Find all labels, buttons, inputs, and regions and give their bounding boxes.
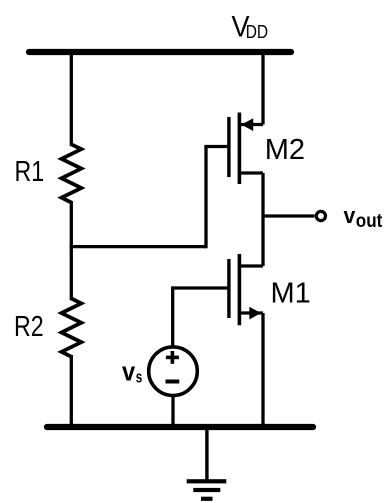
wire output tap — [263, 214, 315, 217]
node VDD label — [232, 10, 269, 43]
wire R2 to ground rail — [70, 355, 73, 427]
vs label — [122, 357, 142, 387]
wire M2 gate lead — [204, 145, 229, 148]
ground — [187, 427, 227, 501]
svg-text:s: s — [136, 368, 143, 387]
wire VDD rail to R1 — [70, 52, 73, 146]
svg-text:v: v — [344, 203, 357, 228]
svg-text:DD: DD — [246, 22, 268, 42]
wire M2 drain to VDD rail — [261, 52, 264, 125]
vout label — [344, 203, 383, 232]
transistor M1 — [229, 254, 263, 325]
svg-text:M1: M1 — [271, 277, 311, 309]
svg-text:R1: R1 — [15, 156, 45, 188]
svg-text:R2: R2 — [14, 311, 44, 343]
wire R1-R2 node to M2 gate (horizontal) — [70, 245, 206, 248]
resistor R2 — [62, 299, 82, 357]
wire M1 gate lead — [173, 286, 229, 289]
wire M2 gate vertical — [204, 147, 207, 249]
svg-text:M2: M2 — [265, 134, 305, 166]
wire R1 to R2 — [70, 201, 73, 300]
node vout terminal — [316, 211, 325, 220]
source vs — [149, 347, 198, 396]
svg-text:out: out — [356, 211, 383, 232]
VDD rail — [29, 49, 291, 55]
svg-text:v: v — [122, 357, 135, 387]
wire M1 gate to vs source — [171, 286, 174, 348]
wire vs to ground rail — [171, 395, 174, 428]
wire M1 source to ground rail — [261, 313, 264, 427]
ground rail — [47, 424, 313, 430]
wire M2 source to M1 drain — [261, 173, 264, 266]
transistor M2 — [229, 113, 263, 185]
resistor R1 — [62, 144, 82, 202]
